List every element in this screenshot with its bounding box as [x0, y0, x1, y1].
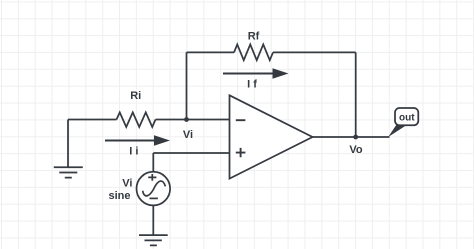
label If — [247, 78, 257, 90]
ground (left) — [54, 167, 83, 177]
resistor Ri — [117, 112, 156, 127]
wire: left input segment from ground stem to resistor Ri — [68, 119, 117, 121]
wire: feedback right vertical down to output node — [355, 52, 357, 137]
wire: source bottom stem to ground — [152, 205, 154, 235]
label Rf — [248, 30, 260, 42]
label sine (source) — [108, 190, 130, 202]
node Vi (junction dot) — [184, 117, 189, 122]
svg-text:Vi: Vi — [122, 178, 132, 190]
node Vo (junction dot) — [353, 135, 358, 140]
svg-text:sine: sine — [108, 190, 130, 202]
current arrow Ii — [105, 135, 170, 145]
label Vi (source) — [122, 178, 132, 190]
wire: from resistor Ri to op-amp inverting input — [156, 119, 230, 121]
svg-text:Vi: Vi — [183, 129, 193, 141]
resistor Rf — [234, 44, 273, 60]
out label callout — [388, 108, 418, 137]
op-amp U1 — [230, 95, 313, 178]
label Ri — [130, 90, 141, 102]
label Ii — [129, 145, 138, 157]
wire: ground stem on left input — [67, 120, 69, 168]
wire: op-amp non-inverting input horizontal — [153, 152, 229, 154]
svg-text:I i: I i — [129, 145, 138, 157]
svg-text:I f: I f — [247, 78, 257, 90]
ground (bottom) — [139, 235, 168, 245]
wire: vertical from node Vi up to feedback path — [186, 52, 188, 119]
wire: feedback top left segment to resistor Rf — [187, 51, 235, 53]
label Vo — [349, 144, 363, 156]
current arrow If — [223, 68, 289, 78]
wire: op-amp output to out callout — [313, 136, 390, 138]
wire: feedback top right segment from Rf to right corner — [273, 51, 356, 53]
svg-text:out: out — [399, 113, 415, 124]
svg-text:Ri: Ri — [130, 90, 141, 102]
label Vi — [183, 129, 193, 141]
source V1 (Vi sine) — [137, 172, 171, 206]
wire: vertical from + input wire down to source top — [152, 153, 154, 172]
svg-text:Rf: Rf — [248, 30, 260, 42]
svg-text:Vo: Vo — [349, 144, 363, 156]
